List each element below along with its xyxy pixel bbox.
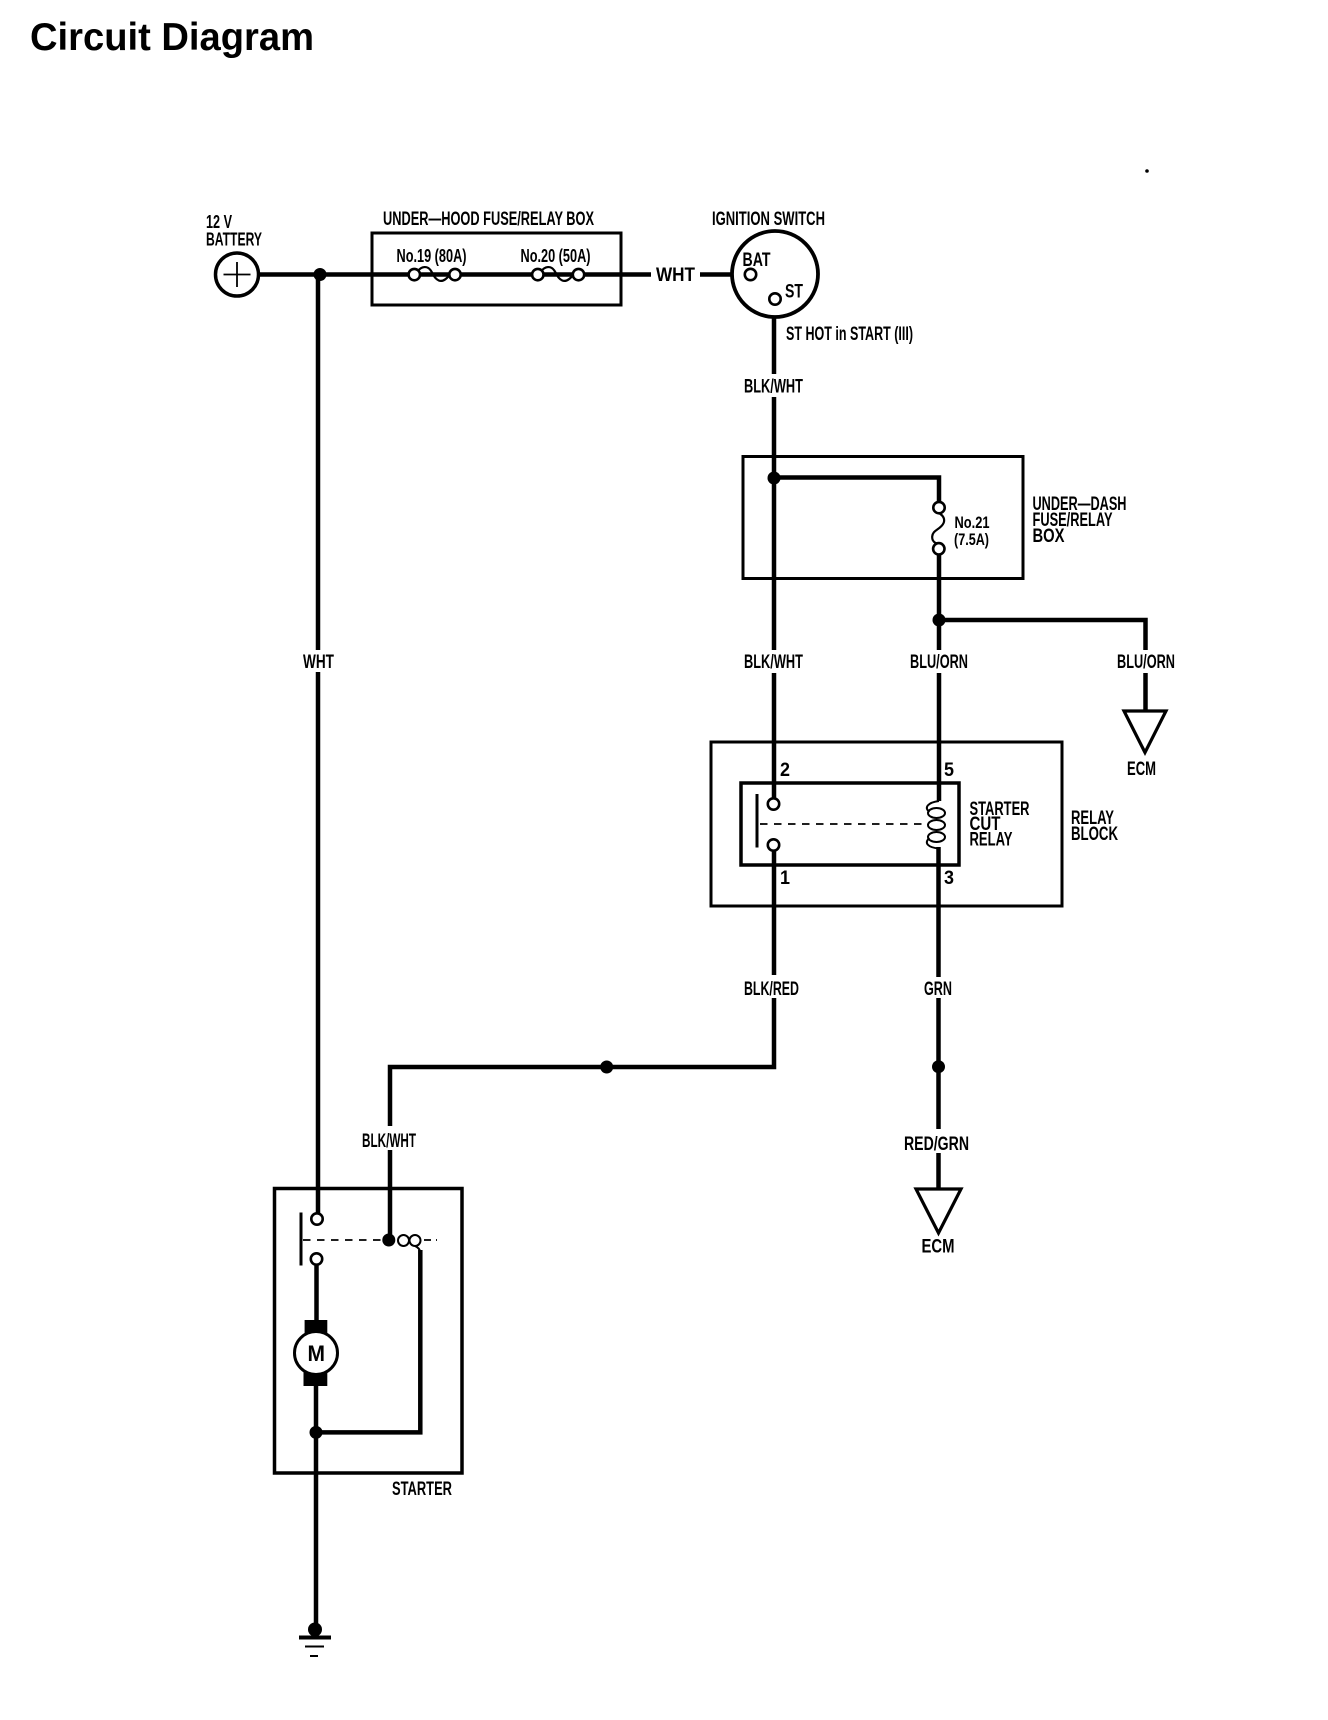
svg-text:BLK/WHT: BLK/WHT	[744, 377, 803, 398]
svg-text:RED/GRN: RED/GRN	[904, 1134, 969, 1155]
svg-text:ECM: ECM	[1127, 759, 1156, 780]
svg-text:5: 5	[944, 760, 954, 781]
svg-text:Circuit Diagram: Circuit Diagram	[30, 16, 314, 59]
svg-text:UNDER—HOOD FUSE/RELAY BOX: UNDER—HOOD FUSE/RELAY BOX	[383, 209, 594, 230]
svg-text:BOX: BOX	[1033, 526, 1065, 547]
svg-text:M: M	[308, 1341, 326, 1366]
svg-text:WHT: WHT	[656, 265, 695, 286]
svg-text:2: 2	[780, 760, 790, 781]
svg-text:ECM: ECM	[922, 1237, 955, 1258]
svg-text:ST: ST	[785, 282, 803, 303]
svg-text:1: 1	[780, 868, 790, 889]
svg-text:No.19 (80A): No.19 (80A)	[397, 246, 467, 266]
svg-text:BAT: BAT	[743, 250, 771, 271]
svg-text:3: 3	[944, 868, 954, 889]
svg-text:(7.5A): (7.5A)	[954, 530, 989, 549]
svg-text:BLK/WHT: BLK/WHT	[362, 1131, 416, 1152]
svg-text:GRN: GRN	[924, 979, 952, 1000]
svg-text:STARTER: STARTER	[392, 1479, 452, 1500]
svg-text:No.20 (50A): No.20 (50A)	[521, 246, 591, 266]
svg-text:RELAY: RELAY	[970, 830, 1013, 851]
svg-text:BLOCK: BLOCK	[1071, 824, 1118, 845]
svg-text:WHT: WHT	[303, 652, 334, 673]
svg-text:BLK/WHT: BLK/WHT	[744, 652, 803, 673]
svg-text:ST HOT in START (III): ST HOT in START (III)	[786, 324, 913, 345]
svg-text:BLU/ORN: BLU/ORN	[1117, 652, 1175, 673]
svg-text:BATTERY: BATTERY	[206, 230, 262, 250]
svg-text:IGNITION SWITCH: IGNITION SWITCH	[712, 209, 825, 230]
svg-text:BLU/ORN: BLU/ORN	[910, 652, 968, 673]
svg-text:BLK/RED: BLK/RED	[744, 979, 799, 1000]
